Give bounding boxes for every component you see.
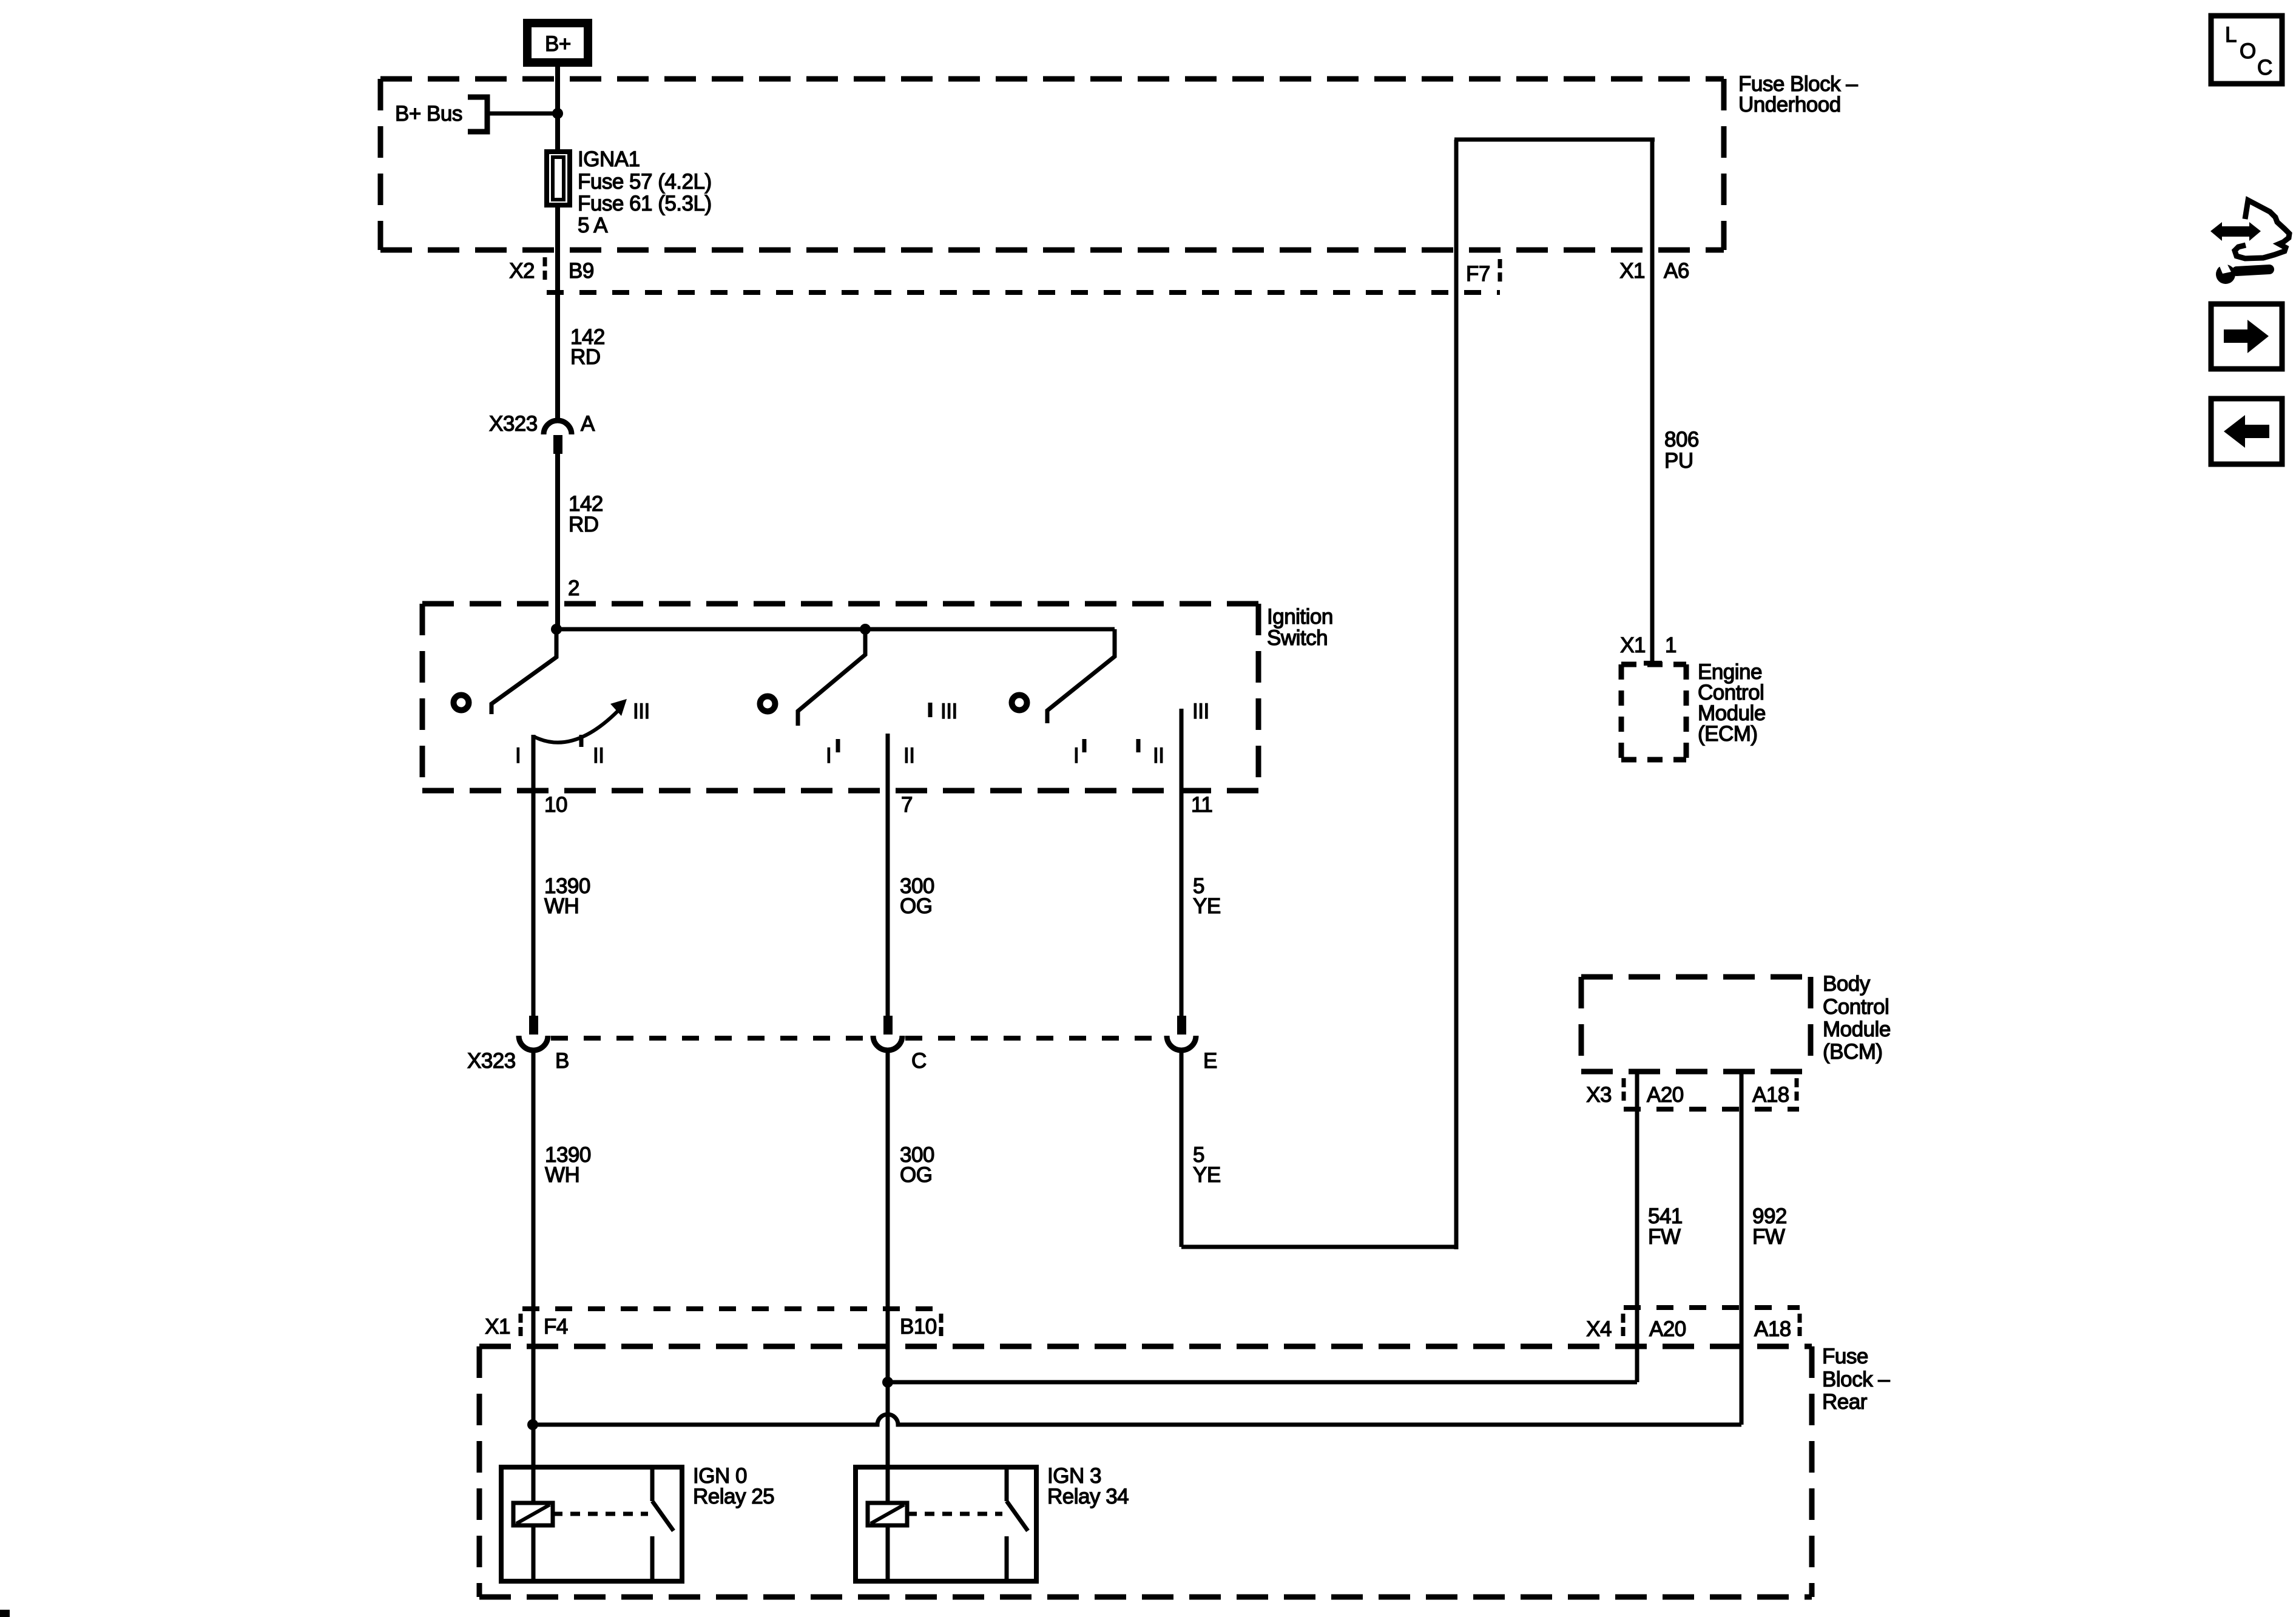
junction F4 [527, 1419, 538, 1430]
svg-text:A18: A18 [1752, 1083, 1789, 1107]
wire 142 RD lower [555, 454, 560, 632]
junction pole 2 [860, 624, 871, 635]
svg-text:Fuse: Fuse [1822, 1345, 1868, 1368]
svg-text:L: L [2225, 23, 2237, 47]
ECM pin terminal bar [1644, 661, 1662, 666]
connector row X3 face line [1624, 1107, 1799, 1112]
svg-text:5 A: 5 A [578, 214, 608, 237]
svg-text:PU: PU [1664, 449, 1693, 473]
connector face line underhood (fine dotted) [547, 290, 1500, 295]
svg-text:I: I [826, 744, 831, 768]
connector row X4 face line [1624, 1305, 1800, 1310]
wire 541 FW [1635, 1072, 1639, 1382]
wire B+ terminal down [555, 61, 560, 149]
svg-text:II: II [903, 744, 914, 768]
pole 1 position ticks and numerals [515, 700, 650, 768]
svg-text:Ignition: Ignition [1267, 605, 1333, 629]
svg-text:A18: A18 [1754, 1317, 1791, 1341]
svg-text:E: E [1203, 1049, 1217, 1073]
svg-text:YE: YE [1193, 1163, 1221, 1187]
svg-text:B9: B9 [569, 259, 594, 283]
svg-text:C: C [911, 1049, 927, 1073]
junction pole 1 [551, 624, 562, 635]
ignition switch pole 2 blade [760, 629, 866, 726]
svg-text:II: II [593, 744, 604, 768]
wire 142 RD upper [555, 205, 560, 421]
svg-text:X323: X323 [467, 1049, 516, 1073]
label 5 YE upper [1193, 874, 1221, 918]
svg-text:B+: B+ [545, 32, 571, 56]
svg-text:I: I [1073, 744, 1079, 768]
in-line connector X323 E [1167, 1016, 1196, 1050]
label 142 RD lower [569, 492, 603, 536]
svg-text:A: A [581, 412, 595, 436]
relay IGN 0 Relay 25 [501, 1425, 682, 1581]
wire 992 FW [1740, 1072, 1744, 1425]
connector X323 row face line [551, 1036, 1165, 1041]
icon LOC box [2211, 16, 2282, 84]
label 300 OG upper [900, 874, 934, 918]
svg-text:Rear: Rear [1822, 1390, 1868, 1414]
svg-text:7: 7 [901, 793, 913, 817]
page artifact speck [0, 1610, 10, 1617]
svg-text:IGNA1: IGNA1 [578, 147, 640, 171]
wire pin 11 [1180, 709, 1184, 1016]
svg-text:F7: F7 [1466, 262, 1490, 286]
connector row X1 ticks [521, 1314, 941, 1340]
svg-text:Module: Module [1823, 1018, 1891, 1041]
icon arrow next page [2211, 304, 2282, 369]
wire 300 OG lower [886, 1050, 890, 1504]
connector row X1 F4 B10 face line [522, 1306, 943, 1311]
pin labels X4 A20 A18 [1586, 1317, 1791, 1341]
label IGN 0 Relay 25 [693, 1464, 774, 1508]
label 1390 WH lower [545, 1143, 591, 1187]
pole 1 rotation arc [534, 699, 627, 743]
fuse IGNA1 [547, 152, 570, 205]
ignition switch box [422, 604, 1258, 791]
svg-text:Underhood: Underhood [1738, 93, 1841, 116]
engine control module box [1621, 664, 1686, 760]
svg-text:C: C [2257, 56, 2272, 79]
label X323 A [489, 412, 595, 436]
icon harness routing with wrench [2210, 200, 2289, 284]
pole 2 position ticks and numerals [826, 700, 957, 768]
svg-text:F4: F4 [544, 1315, 568, 1338]
svg-text:Control: Control [1823, 995, 1889, 1019]
wire riser to fuse block underhood F7 [1454, 140, 1459, 1249]
pin labels X1 F4 B10 [485, 1315, 937, 1338]
svg-text:Block –: Block – [1822, 1368, 1890, 1391]
svg-text:I: I [515, 744, 521, 768]
svg-text:2: 2 [568, 576, 579, 600]
svg-text:X4: X4 [1586, 1317, 1612, 1341]
label fuse IGNA1 values [578, 147, 712, 237]
svg-text:11: 11 [1191, 793, 1212, 817]
svg-text:X1: X1 [485, 1315, 510, 1338]
in-line connector X323 A [544, 420, 572, 454]
wire pin 7 [886, 734, 890, 1016]
pin labels X3 A20 A18 [1586, 1083, 1789, 1107]
svg-text:OG: OG [900, 1163, 932, 1187]
label X323 B C E [467, 1049, 1217, 1073]
body control module box [1581, 977, 1811, 1072]
svg-text:Relay 25: Relay 25 [693, 1485, 774, 1508]
label 300 OG lower [900, 1143, 934, 1187]
svg-text:FW: FW [1648, 1225, 1681, 1249]
junction B10 [882, 1377, 893, 1388]
wire 5 YE lower [1180, 1050, 1184, 1247]
svg-text:A20: A20 [1647, 1083, 1684, 1107]
fuse block underhood box [380, 79, 1724, 250]
ignition switch pole 3 blade [1012, 629, 1115, 723]
svg-text:X2: X2 [509, 259, 535, 283]
wire B+ Bus to junction [487, 112, 558, 116]
svg-text:Fuse 57 (4.2L): Fuse 57 (4.2L) [578, 170, 712, 194]
svg-text:FW: FW [1752, 1225, 1785, 1249]
label 806 PU [1664, 428, 1699, 473]
svg-text:(ECM): (ECM) [1698, 722, 1758, 746]
wire pin 10 [532, 735, 536, 1016]
svg-text:OG: OG [900, 894, 932, 918]
svg-text:X3: X3 [1586, 1083, 1612, 1107]
in-line connector X323 C [873, 1016, 902, 1050]
label Body Control Module BCM [1823, 972, 1891, 1064]
svg-text:III: III [1192, 700, 1209, 723]
label 5 YE lower [1193, 1143, 1221, 1187]
svg-text:A6: A6 [1664, 259, 1689, 283]
wire rear fuse block B10 to A20 run [888, 1380, 1637, 1385]
svg-text:III: III [940, 700, 957, 723]
icon arrow previous page [2211, 399, 2282, 464]
svg-text:10: 10 [544, 793, 567, 817]
svg-text:III: III [633, 700, 650, 723]
wire underhood internal top run [1454, 138, 1655, 142]
svg-text:806: 806 [1664, 428, 1699, 451]
junction B+ bus [552, 108, 563, 119]
pole 3 position ticks and numerals [1073, 700, 1209, 768]
wire 1390 WH lower [532, 1050, 536, 1425]
svg-text:B10: B10 [900, 1315, 937, 1338]
label Ignition Switch [1267, 605, 1333, 650]
fuse block rear box [479, 1346, 1812, 1597]
svg-text:B+ Bus: B+ Bus [395, 102, 462, 126]
svg-text:A20: A20 [1649, 1317, 1686, 1341]
connector tick F7 [1498, 259, 1502, 284]
label IGN 3 Relay 34 [1047, 1464, 1129, 1508]
svg-text:(BCM): (BCM) [1823, 1040, 1883, 1064]
battery feed terminal B+ [527, 23, 588, 62]
svg-text:B: B [555, 1049, 569, 1073]
label 1390 WH upper [544, 874, 590, 918]
svg-text:RD: RD [570, 345, 601, 369]
svg-text:WH: WH [544, 894, 579, 918]
svg-text:WH: WH [545, 1163, 579, 1187]
svg-text:X323: X323 [489, 412, 538, 436]
svg-text:Switch: Switch [1267, 626, 1328, 650]
svg-text:Body: Body [1823, 972, 1871, 996]
label 142 RD upper [570, 325, 605, 369]
in-line connector X323 B [519, 1016, 548, 1050]
svg-text:O: O [2240, 39, 2256, 63]
pin label X1 1 ECM [1620, 633, 1676, 657]
svg-text:1: 1 [1665, 633, 1676, 657]
label 541 FW [1648, 1204, 1683, 1249]
svg-text:YE: YE [1193, 894, 1221, 918]
label 992 FW [1752, 1204, 1787, 1249]
ignition switch feed bus wire [556, 627, 1115, 632]
wire rear fuse block F4 to A18 run with hop [533, 1414, 1741, 1425]
connector row X4 ticks [1623, 1314, 1800, 1340]
svg-text:X1: X1 [1619, 259, 1645, 283]
wire 806 PU drop from underhood A6 [1650, 140, 1655, 663]
svg-text:X1: X1 [1620, 633, 1646, 657]
relay IGN 3 Relay 34 [856, 1425, 1036, 1581]
svg-text:RD: RD [569, 513, 599, 536]
node B+ Bus bar [395, 97, 487, 132]
label Fuse Block Underhood [1738, 72, 1858, 116]
svg-text:II: II [1153, 744, 1164, 768]
label Engine Control Module ECM [1698, 660, 1766, 746]
connector row X3 ticks [1624, 1078, 1797, 1104]
svg-text:Fuse 61 (5.3L): Fuse 61 (5.3L) [578, 192, 712, 215]
svg-text:Relay 34: Relay 34 [1047, 1485, 1129, 1508]
ignition switch pole 1 blade [454, 629, 557, 714]
label Fuse Block Rear [1822, 1345, 1890, 1414]
connector row X2 B9 tick [543, 257, 547, 283]
wire 5 YE horizontal run to underhood [1181, 1245, 1456, 1249]
